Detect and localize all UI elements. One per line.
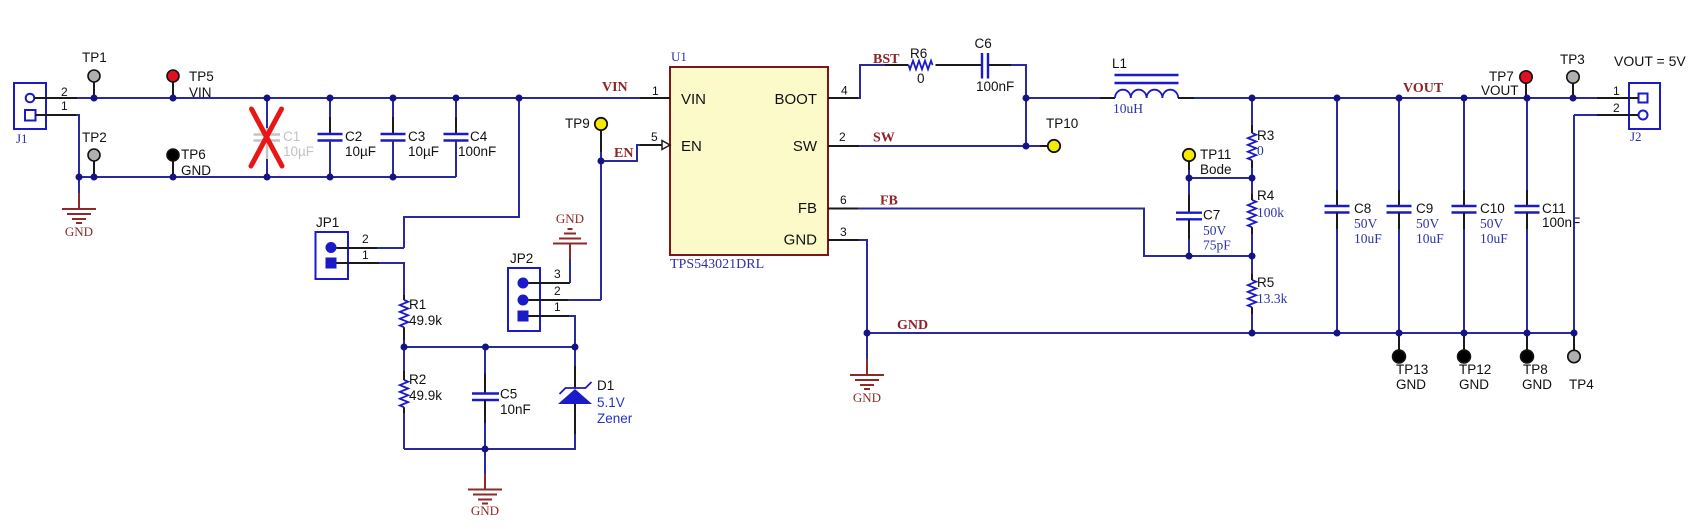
wire VIN rail top	[77, 97, 640, 99]
wire GND rail bottom	[867, 332, 1574, 334]
svg-text:TP1: TP1	[82, 50, 107, 65]
connector J2	[1629, 83, 1660, 144]
ground symbol above JP2	[553, 211, 587, 283]
svg-text:100nF: 100nF	[458, 144, 496, 159]
resistor R4	[1248, 178, 1284, 256]
testpoint TP2	[82, 130, 107, 177]
svg-text:TP4: TP4	[1569, 377, 1594, 392]
resistor R3	[1248, 98, 1274, 178]
U1 pin 6 FB	[828, 193, 858, 209]
wire U1 GND to rail	[859, 240, 867, 333]
svg-text:C4: C4	[470, 129, 488, 144]
U1 pin 5 EN input triangle	[640, 130, 670, 150]
svg-text:TP8: TP8	[1523, 362, 1548, 377]
svg-text:VOUT: VOUT	[1403, 81, 1444, 96]
svg-text:C11: C11	[1542, 201, 1566, 216]
testpoint TP1	[82, 50, 107, 98]
svg-text:50V: 50V	[1416, 216, 1440, 231]
svg-text:2: 2	[362, 232, 369, 246]
svg-text:50V: 50V	[1354, 216, 1378, 231]
capacitor C8	[1325, 98, 1383, 333]
testpoint TP6	[167, 147, 211, 178]
capacitor C9	[1387, 98, 1445, 333]
svg-text:0: 0	[1257, 143, 1264, 158]
svg-text:TP10: TP10	[1046, 116, 1078, 131]
ground symbol below GND rail	[850, 333, 884, 405]
svg-text:C2: C2	[345, 129, 362, 144]
JP2 pin 1 lead	[529, 300, 576, 347]
wire BOOT to BST	[858, 65, 885, 98]
ground symbol below C5	[468, 449, 502, 518]
svg-text:EN: EN	[681, 138, 702, 155]
svg-text:5.1V: 5.1V	[597, 395, 625, 410]
testpoint TP12	[1458, 333, 1492, 392]
svg-text:1: 1	[554, 300, 561, 314]
svg-text:1: 1	[61, 99, 68, 113]
svg-text:10uF: 10uF	[1416, 231, 1444, 246]
svg-text:C1: C1	[283, 129, 300, 144]
svg-text:3: 3	[840, 225, 847, 239]
svg-text:50V: 50V	[1480, 216, 1504, 231]
J1 pin 2 lead	[34, 85, 77, 99]
resistor R2	[400, 347, 442, 449]
capacitor C6	[936, 36, 1027, 146]
svg-text:Bode: Bode	[1200, 162, 1232, 177]
svg-text:TP3: TP3	[1560, 52, 1585, 67]
svg-text:49.9k: 49.9k	[409, 313, 442, 328]
junction dots top rail	[91, 95, 523, 102]
testpoint TP10	[1040, 116, 1078, 152]
wire bottom row R2-C5	[404, 448, 485, 450]
svg-text:TP11: TP11	[1200, 147, 1231, 162]
svg-text:49.9k: 49.9k	[409, 388, 442, 403]
IC U1 TPS543021DRL	[670, 49, 828, 272]
svg-text:6: 6	[840, 193, 847, 207]
wire FB net	[858, 209, 1252, 257]
svg-text:C6: C6	[975, 36, 992, 51]
svg-text:13.3k: 13.3k	[1257, 291, 1288, 306]
svg-text:R6: R6	[910, 46, 927, 61]
svg-text:1: 1	[362, 248, 369, 262]
junction dots lower left rail	[76, 174, 397, 181]
svg-text:C3: C3	[408, 129, 425, 144]
svg-text:10nF: 10nF	[500, 402, 531, 417]
wire node row JP1/R1/C5/D1	[404, 346, 575, 348]
svg-text:GND: GND	[471, 503, 499, 518]
svg-text:C7: C7	[1203, 208, 1220, 223]
svg-text:GND: GND	[1396, 377, 1426, 392]
resistor R5	[1248, 256, 1288, 333]
JP2 pin 3 lead	[529, 267, 571, 283]
svg-text:L1: L1	[1112, 56, 1127, 71]
svg-text:1: 1	[652, 84, 659, 98]
svg-text:JP2: JP2	[510, 251, 533, 266]
U1 pin 1 VIN	[640, 84, 670, 98]
svg-text:C9: C9	[1416, 201, 1433, 216]
svg-text:VIN: VIN	[602, 80, 628, 95]
svg-text:FB: FB	[798, 200, 817, 217]
svg-text:3: 3	[554, 267, 561, 281]
svg-text:TP2: TP2	[82, 130, 107, 145]
svg-text:R4: R4	[1257, 188, 1275, 203]
svg-text:TP9: TP9	[565, 116, 590, 131]
svg-text:TP6: TP6	[181, 147, 206, 162]
wire VOUT rail	[1194, 97, 1597, 99]
svg-text:SW: SW	[873, 131, 895, 146]
capacitor C1 (DNP, crossed out)	[254, 98, 315, 177]
svg-text:C10: C10	[1480, 201, 1505, 216]
junction dots TP11 row	[1186, 175, 1256, 182]
svg-text:GND: GND	[784, 232, 818, 249]
wire VIN rail to JP1	[404, 98, 519, 248]
svg-text:VIN: VIN	[681, 91, 706, 108]
svg-text:10µF: 10µF	[345, 144, 376, 159]
capacitor C5	[472, 347, 531, 449]
svg-text:GND: GND	[556, 211, 584, 226]
svg-text:EN: EN	[614, 146, 633, 161]
svg-text:VOUT: VOUT	[1481, 83, 1519, 98]
svg-text:5: 5	[651, 130, 658, 144]
J2 pin 2 lead	[1574, 101, 1638, 115]
svg-text:2: 2	[1613, 101, 1620, 115]
header JP2	[508, 251, 540, 331]
svg-text:50V: 50V	[1203, 223, 1227, 238]
svg-text:TP12: TP12	[1459, 362, 1491, 377]
svg-text:Zener: Zener	[597, 411, 633, 426]
wire GND rail lower	[79, 176, 456, 178]
svg-text:2: 2	[554, 284, 561, 298]
wire SW net	[859, 145, 1040, 147]
resistor R1	[400, 295, 442, 347]
U1 pin 4 BOOT	[828, 84, 858, 99]
svg-text:GND: GND	[181, 163, 211, 178]
wire EN net	[601, 145, 640, 300]
svg-text:J2: J2	[1630, 129, 1642, 144]
svg-text:U1: U1	[671, 49, 687, 64]
zener diode D1	[485, 347, 633, 449]
resistor R6	[885, 46, 933, 86]
svg-text:TPS543021DRL: TPS543021DRL	[670, 257, 764, 272]
testpoint TP3	[1560, 52, 1585, 98]
svg-text:R1: R1	[409, 297, 426, 312]
wire J2 pin2 riser to GND rail	[1573, 115, 1575, 333]
J2 pin 1 lead	[1597, 84, 1638, 98]
wire J1 pin1 to GND rail	[76, 115, 79, 193]
svg-text:GND: GND	[65, 224, 93, 239]
junction dots GND rail	[864, 330, 1578, 337]
svg-text:TP5: TP5	[189, 69, 214, 84]
svg-text:10uF: 10uF	[1354, 231, 1382, 246]
svg-text:R2: R2	[409, 372, 426, 387]
svg-text:2: 2	[839, 130, 846, 144]
svg-text:GND: GND	[897, 318, 928, 333]
svg-text:0: 0	[917, 71, 925, 86]
svg-text:4: 4	[841, 84, 848, 98]
svg-text:2: 2	[61, 85, 68, 99]
svg-text:JP1: JP1	[316, 215, 339, 230]
svg-text:1: 1	[1613, 84, 1620, 98]
svg-text:10uF: 10uF	[1480, 231, 1508, 246]
U1 pin 3 GND	[828, 225, 859, 240]
capacitor C3	[381, 98, 440, 177]
wire SW node to L1	[1026, 97, 1105, 99]
JP2 pin 2 lead	[529, 284, 602, 300]
svg-text:D1: D1	[597, 378, 614, 393]
svg-text:VOUT = 5V: VOUT = 5V	[1614, 53, 1686, 69]
red X over C1	[251, 109, 282, 166]
junction dots VOUT rail	[1249, 95, 1577, 102]
svg-text:100nF: 100nF	[976, 79, 1014, 94]
svg-text:R5: R5	[1257, 275, 1274, 290]
capacitor C11	[1515, 98, 1581, 333]
junction dots SW/BST	[1023, 95, 1030, 150]
svg-text:C8: C8	[1354, 201, 1371, 216]
svg-text:100k: 100k	[1257, 205, 1284, 220]
capacitor C4	[444, 98, 497, 177]
testpoint TP4	[1568, 333, 1594, 392]
testpoint TP5	[167, 69, 214, 100]
testpoint TP8	[1521, 333, 1553, 392]
junction dot EN	[598, 158, 605, 165]
svg-text:R3: R3	[1257, 128, 1274, 143]
capacitor C10	[1452, 98, 1509, 333]
capacitor C7	[1176, 178, 1231, 256]
JP1 pin 1 lead	[337, 248, 405, 295]
svg-text:GND: GND	[1459, 377, 1489, 392]
header JP1	[316, 215, 349, 279]
connector J1	[14, 83, 46, 146]
testpoint TP9	[565, 116, 607, 152]
testpoint TP11	[1183, 147, 1232, 178]
testpoint TP13	[1393, 333, 1429, 392]
junction dots FB row	[1186, 253, 1256, 260]
wire TP11 row	[1189, 177, 1252, 179]
svg-text:10µF: 10µF	[283, 144, 314, 159]
ground symbol left	[62, 193, 96, 239]
svg-text:75pF: 75pF	[1203, 238, 1231, 253]
svg-text:SW: SW	[793, 138, 818, 155]
svg-text:J1: J1	[16, 131, 28, 146]
svg-text:FB: FB	[880, 194, 898, 209]
testpoint TP7	[1481, 69, 1532, 98]
JP1 pin 2 lead	[337, 232, 405, 248]
inductor L1	[1100, 56, 1194, 116]
svg-text:C5: C5	[500, 387, 517, 402]
J1 pin 1 lead	[35, 99, 76, 115]
svg-text:GND: GND	[1522, 377, 1552, 392]
svg-text:10uH: 10uH	[1113, 101, 1143, 116]
svg-text:VIN: VIN	[189, 85, 212, 100]
svg-text:10µF: 10µF	[408, 144, 439, 159]
svg-text:TP7: TP7	[1489, 69, 1514, 84]
U1 pin 2 SW	[828, 130, 859, 146]
capacitor C2	[318, 98, 377, 177]
svg-text:GND: GND	[853, 390, 881, 405]
svg-text:TP13: TP13	[1396, 362, 1428, 377]
junction dots node rows	[401, 344, 579, 453]
svg-text:BOOT: BOOT	[774, 91, 817, 108]
